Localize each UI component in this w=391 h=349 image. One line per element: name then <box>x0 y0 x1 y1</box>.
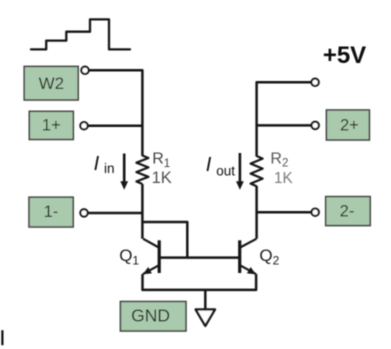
svg-text:R1: R1 <box>152 151 170 170</box>
svg-text:1K: 1K <box>152 169 172 187</box>
svg-text:GND: GND <box>131 305 170 325</box>
svg-text:Q1: Q1 <box>119 246 139 267</box>
svg-text:+5V: +5V <box>323 42 366 69</box>
svg-text:2-: 2- <box>340 203 355 221</box>
svg-text:in: in <box>104 161 115 176</box>
svg-text:2+: 2+ <box>340 116 359 134</box>
svg-text:I: I <box>206 154 212 176</box>
svg-text:W2: W2 <box>39 74 65 93</box>
svg-text:I: I <box>94 153 100 175</box>
svg-text:1+: 1+ <box>42 116 61 134</box>
svg-text:1-: 1- <box>44 203 59 221</box>
svg-text:Q2: Q2 <box>259 246 279 267</box>
svg-text:out: out <box>216 164 235 179</box>
svg-text:R2: R2 <box>270 151 288 170</box>
svg-text:1K: 1K <box>274 170 294 187</box>
